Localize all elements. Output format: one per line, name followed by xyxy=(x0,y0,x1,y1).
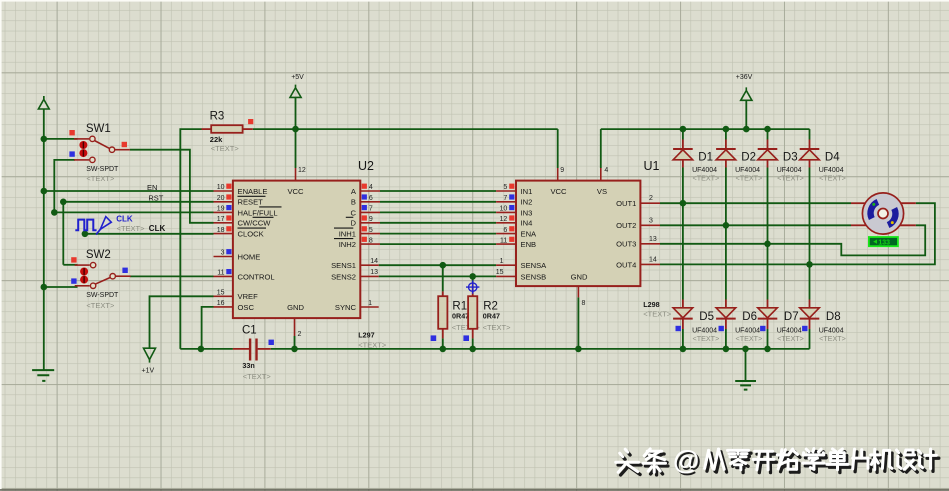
svg-text:8: 8 xyxy=(582,300,586,307)
wire OUT3 to motor right xyxy=(660,225,925,255)
resistor R2 xyxy=(472,282,474,296)
node OSC-GND xyxy=(198,346,205,353)
svg-text:EN: EN xyxy=(147,183,157,192)
svg-text:20: 20 xyxy=(217,195,225,202)
pin 9 U2 stub xyxy=(360,222,380,224)
node OUT1-D1 xyxy=(680,200,687,207)
svg-text:GND: GND xyxy=(287,303,304,312)
pin square U2-3 xyxy=(226,249,231,254)
svg-text:SENSB: SENSB xyxy=(521,272,547,281)
wire GND2 stem xyxy=(745,349,747,381)
pin square U2-10 xyxy=(226,184,231,189)
svg-text:+36V: +36V xyxy=(736,74,753,81)
wire OUT4 to motor right xyxy=(660,203,935,264)
wire SW1 top throw to rail xyxy=(44,138,78,140)
svg-text:13: 13 xyxy=(370,269,378,276)
svg-text:D2: D2 xyxy=(741,151,756,163)
node R1 top xyxy=(440,262,447,269)
pin 15 U2 stub xyxy=(214,295,233,297)
node U1GND xyxy=(575,346,582,353)
svg-text:D1: D1 xyxy=(698,151,713,163)
svg-text:ENABLE: ENABLE xyxy=(238,187,268,196)
svg-text:<TEXT>: <TEXT> xyxy=(777,173,804,182)
wire SW2 top throw xyxy=(63,264,77,266)
svg-text:0R47: 0R47 xyxy=(483,312,500,321)
power +5V symbol xyxy=(290,85,301,98)
svg-text:16: 16 xyxy=(217,300,225,307)
wire diode column D1 to OUT1 xyxy=(682,168,684,204)
wire U2 GND drop xyxy=(294,336,296,349)
svg-text:SENSA: SENSA xyxy=(521,261,548,270)
pin 4 U2 stub xyxy=(360,190,380,192)
wire U1 VCC riser xyxy=(557,129,559,168)
diode D7 xyxy=(767,300,769,308)
svg-text:IN3: IN3 xyxy=(521,208,533,217)
svg-text:1: 1 xyxy=(500,258,504,265)
origin marker xyxy=(466,280,479,293)
power +36V symbol xyxy=(741,87,752,100)
svg-text:D3: D3 xyxy=(783,151,798,163)
svg-text:U2: U2 xyxy=(358,159,374,173)
wire bottom GND net left of C1 xyxy=(180,348,233,350)
diode D3 xyxy=(767,140,769,150)
svg-text:SYNC: SYNC xyxy=(335,303,357,312)
svg-text:SW2: SW2 xyxy=(86,249,111,261)
svg-text:D4: D4 xyxy=(825,151,840,163)
wire diode column D5 down xyxy=(682,203,684,299)
svg-text:11: 11 xyxy=(217,270,224,277)
node OUT2-D2 xyxy=(723,222,730,229)
wire +5V rail xyxy=(253,128,558,130)
selection square D7 xyxy=(760,326,765,331)
pin 5 U2 stub xyxy=(360,233,380,235)
pin 10 U1 stub xyxy=(496,211,516,213)
node bus D1 xyxy=(680,126,687,133)
svg-text:D6: D6 xyxy=(742,311,757,323)
wire diode column D6 down xyxy=(725,225,727,299)
wire OUT1 to motor xyxy=(660,202,851,204)
node OUT3-D3 xyxy=(764,241,771,248)
svg-text:VCC: VCC xyxy=(550,187,567,196)
svg-text:<TEXT>: <TEXT> xyxy=(358,341,387,350)
wire U1 VS riser xyxy=(600,129,602,168)
power +1V symbol (down) xyxy=(144,348,156,362)
wire CLK net to CLOCK pin xyxy=(85,233,214,235)
overline INH1 xyxy=(334,227,353,229)
node OUT4-D4 xyxy=(806,261,813,268)
pin 1 U1 stub xyxy=(496,264,516,266)
svg-text:<TEXT>: <TEXT> xyxy=(736,334,763,343)
svg-text:19: 19 xyxy=(217,206,225,213)
node GND net D7 xyxy=(764,346,771,353)
selection square SW1 b xyxy=(122,142,127,147)
svg-text:VS: VS xyxy=(597,187,607,196)
node rail-SW2 xyxy=(41,284,48,291)
selection square SW1 c xyxy=(69,151,74,156)
svg-text:VCC: VCC xyxy=(287,187,304,196)
svg-text:9: 9 xyxy=(560,167,564,174)
svg-text:5: 5 xyxy=(369,227,373,234)
wire diode column D8 down xyxy=(809,264,811,299)
svg-text:+1V: +1V xyxy=(142,368,155,375)
diode D5 xyxy=(682,300,684,308)
pin square U1-7 xyxy=(509,194,514,199)
svg-text:<TEXT>: <TEXT> xyxy=(243,372,272,381)
overline D xyxy=(346,216,354,218)
pin 11 U1 stub xyxy=(496,243,516,245)
svg-text:12: 12 xyxy=(298,167,306,174)
wire VREF to +1V xyxy=(150,296,214,348)
wire +5V stem xyxy=(295,97,297,129)
svg-text:CLK: CLK xyxy=(149,224,166,233)
svg-text:CONTROL: CONTROL xyxy=(238,272,275,281)
svg-text:18: 18 xyxy=(217,227,225,234)
pin 16 U2 stub xyxy=(214,306,233,308)
wire R2 top drop xyxy=(472,276,474,282)
switch SW2 xyxy=(75,264,90,266)
pin 2 U2 GND stub xyxy=(294,318,296,336)
pin 13 U1 stub xyxy=(640,243,660,245)
svg-text:7: 7 xyxy=(369,206,373,213)
svg-text:15: 15 xyxy=(496,269,504,276)
resistor R3 xyxy=(202,128,212,130)
wire diode column D3 to OUT3 xyxy=(767,168,769,244)
pin 7 U2 stub xyxy=(360,211,380,213)
selection square D6 xyxy=(719,326,724,331)
wire SW1 pole to CW/CCW xyxy=(130,150,214,223)
wire diode column D7 to GND net xyxy=(767,329,769,349)
pin square U2-5 xyxy=(362,226,367,231)
selection square SW2 b xyxy=(122,268,127,273)
svg-text:2: 2 xyxy=(298,331,302,338)
svg-text:OUT2: OUT2 xyxy=(616,221,636,230)
pin square U2-7 xyxy=(362,205,367,210)
svg-text:R1: R1 xyxy=(452,300,467,312)
svg-text:6: 6 xyxy=(503,227,507,234)
wire diode column D5 to GND net xyxy=(682,329,684,349)
node RST-SW2 xyxy=(60,199,67,206)
node bus D3 xyxy=(764,126,771,133)
svg-text:<TEXT>: <TEXT> xyxy=(117,224,146,233)
node HALF/FULL-SW1 xyxy=(51,209,58,216)
pin square U2-8 xyxy=(362,237,367,242)
svg-text:L297: L297 xyxy=(358,331,374,340)
svg-text:5: 5 xyxy=(503,184,507,191)
selection square SW2 a xyxy=(71,257,76,262)
wire R3 left to vertical bus xyxy=(180,129,201,349)
svg-text:SW1: SW1 xyxy=(86,123,111,135)
svg-text:13: 13 xyxy=(649,236,657,243)
wire SENS1 net xyxy=(379,264,496,266)
wire bottom GND net right of C1 xyxy=(271,348,810,350)
svg-text:INH2: INH2 xyxy=(339,240,356,249)
svg-text:ENB: ENB xyxy=(521,240,537,249)
pin 12 U1 stub xyxy=(496,222,516,224)
pin 18 U2 stub xyxy=(214,233,233,235)
pin 10 U2 stub xyxy=(214,190,233,192)
wire RST net vertical+horizontal xyxy=(63,202,213,265)
svg-text:12: 12 xyxy=(500,216,508,223)
pin square U2-20 xyxy=(226,194,231,199)
pin 9 U1 VCC stub xyxy=(557,168,559,181)
svg-text:CLOCK: CLOCK xyxy=(238,230,264,239)
node rail-EN xyxy=(41,188,48,195)
svg-text:<TEXT>: <TEXT> xyxy=(736,173,763,182)
svg-text:B: B xyxy=(351,198,356,207)
svg-text:@: @ xyxy=(673,445,699,475)
watermark text xyxy=(616,445,939,477)
pin 8 U1 GND stub xyxy=(577,286,579,297)
pin 13 U2 stub xyxy=(360,275,378,277)
node U2GND xyxy=(291,346,298,353)
wire U2 VCC riser xyxy=(295,129,297,168)
motor M1 xyxy=(851,202,867,204)
pin 5 U1 stub xyxy=(496,190,516,192)
svg-text:14: 14 xyxy=(370,258,378,265)
svg-text:D: D xyxy=(351,219,357,228)
svg-text:3: 3 xyxy=(221,250,225,257)
svg-text:<TEXT>: <TEXT> xyxy=(211,144,240,153)
svg-text:8: 8 xyxy=(369,237,373,244)
pin square U2-9 xyxy=(362,215,367,220)
wire R1 bottom drop xyxy=(442,338,444,349)
svg-text:7: 7 xyxy=(503,195,507,202)
diode D2 xyxy=(725,140,727,150)
svg-text:0R47: 0R47 xyxy=(452,312,469,321)
wire U2-U1 bus C xyxy=(380,211,496,213)
pin square U2-6 xyxy=(362,194,367,199)
pin square U1-6 xyxy=(509,226,514,231)
svg-text:GND: GND xyxy=(571,272,588,281)
selection square R1 xyxy=(431,335,437,341)
selection square R2 xyxy=(463,335,469,341)
selection square D8 xyxy=(802,326,807,331)
svg-text:<TEXT>: <TEXT> xyxy=(86,301,115,310)
wire diode column D4 top xyxy=(809,129,811,139)
svg-text:17: 17 xyxy=(217,216,225,223)
selection square SW2 c xyxy=(71,278,76,283)
node GND net D5 xyxy=(680,346,687,353)
overline CLOCK xyxy=(238,227,267,229)
overline RESET xyxy=(238,195,266,197)
pin 3 U2 stub xyxy=(214,256,233,258)
svg-text:HOME: HOME xyxy=(238,252,261,261)
svg-text:D5: D5 xyxy=(699,311,714,323)
wire diode column D6 to GND net xyxy=(725,329,727,349)
selection square R3 xyxy=(248,119,253,124)
svg-text:10: 10 xyxy=(217,184,225,191)
pin 6 U2 stub xyxy=(360,201,380,203)
svg-text:ENA: ENA xyxy=(521,230,538,239)
svg-text:OUT1: OUT1 xyxy=(616,199,636,208)
svg-text:3: 3 xyxy=(649,217,653,224)
svg-text:OUT4: OUT4 xyxy=(616,260,636,269)
wire diode column D1 top xyxy=(682,129,684,139)
op-amp U1 body xyxy=(516,181,640,287)
selection square D5 xyxy=(676,326,681,331)
pin 4 U1 VS stub xyxy=(600,168,602,181)
pin 3 U1 stub xyxy=(640,224,660,226)
pin 1 U2 SYNC stub xyxy=(360,306,378,308)
pin square U2-19 xyxy=(226,205,231,210)
svg-text:<TEXT>: <TEXT> xyxy=(483,323,512,332)
node bus D2 xyxy=(723,126,730,133)
diode D6 xyxy=(725,300,727,308)
svg-text:C1: C1 xyxy=(242,325,257,337)
wire U2-U1 bus D xyxy=(380,222,496,224)
node R2 bottom xyxy=(469,346,476,353)
wire U2-U1 bus A xyxy=(380,190,496,192)
ground symbol middle xyxy=(735,381,756,390)
wire OUT2 to motor xyxy=(660,224,851,226)
selection square SW1 a xyxy=(69,130,74,135)
pin 14 U2 stub xyxy=(360,264,378,266)
wire diode column D2 top xyxy=(725,129,727,139)
overline CCW xyxy=(253,216,274,218)
svg-text:SENS1: SENS1 xyxy=(331,261,356,270)
wire U2-U1 bus B xyxy=(380,201,496,203)
op-amp U2 body xyxy=(233,181,360,319)
node GND net tap xyxy=(742,346,749,353)
svg-text:<TEXT>: <TEXT> xyxy=(777,334,804,343)
svg-text:D8: D8 xyxy=(826,311,841,323)
diode D4 xyxy=(809,140,811,150)
pin 19 U2 stub xyxy=(214,211,233,213)
wire SW2 bottom throw to rail xyxy=(44,286,78,288)
wire diode column D2 to OUT2 xyxy=(725,168,727,226)
svg-text:11: 11 xyxy=(500,237,507,244)
node R2 top xyxy=(469,273,476,280)
svg-text:RST: RST xyxy=(148,194,163,203)
svg-text:<TEXT>: <TEXT> xyxy=(693,334,720,343)
pin square U2-17 xyxy=(226,215,231,220)
pin square U1-10 xyxy=(509,205,514,210)
svg-text:L298: L298 xyxy=(643,300,659,309)
wire diode column D7 down xyxy=(767,244,769,300)
svg-text:R2: R2 xyxy=(483,300,498,312)
svg-text:9: 9 xyxy=(369,216,373,223)
svg-text:133: 133 xyxy=(878,239,890,246)
pin 20 U2 stub xyxy=(214,201,233,203)
pin 11 U2 stub xyxy=(214,275,233,277)
svg-text:HALF/FULL: HALF/FULL xyxy=(238,208,278,217)
svg-text:D7: D7 xyxy=(784,311,799,323)
svg-text:IN4: IN4 xyxy=(521,219,533,228)
svg-text:<TEXT>: <TEXT> xyxy=(819,334,846,343)
wire U1 GND drop xyxy=(577,297,579,349)
svg-text:2: 2 xyxy=(649,195,653,202)
pin 7 U1 stub xyxy=(496,201,516,203)
svg-text:<TEXT>: <TEXT> xyxy=(819,173,846,182)
svg-text:SENS2: SENS2 xyxy=(331,272,356,281)
wire SW2 pole to CONTROL xyxy=(130,275,214,277)
svg-text:IN2: IN2 xyxy=(521,198,533,207)
svg-text:14: 14 xyxy=(649,256,657,263)
pin square U1-5 xyxy=(509,184,514,189)
pin square U2-18 xyxy=(226,226,231,231)
switch SW1 xyxy=(74,138,89,140)
overline INH2 xyxy=(334,238,353,240)
pin 14 U1 stub xyxy=(640,263,660,265)
wire diode column D8 to GND net xyxy=(809,329,811,349)
svg-text:SW-SPDT: SW-SPDT xyxy=(86,166,119,173)
pin 17 U2 stub xyxy=(214,222,233,224)
wire U2-U1 bus INH2-ENB xyxy=(380,243,496,245)
node +5V xyxy=(292,126,299,133)
pin 12 U2 VCC stub xyxy=(295,168,297,181)
node rail-SW1 xyxy=(41,136,48,143)
wire R2 bottom drop xyxy=(472,338,474,349)
wire R1 top drop xyxy=(442,265,444,291)
svg-text:R3: R3 xyxy=(210,111,225,123)
wire OSC drop xyxy=(202,307,214,349)
svg-text:C: C xyxy=(351,208,357,217)
wire left GND rail xyxy=(43,109,45,370)
svg-text:6: 6 xyxy=(369,195,373,202)
motor speed display xyxy=(869,237,898,246)
svg-text:OUT3: OUT3 xyxy=(616,240,636,249)
svg-text:15: 15 xyxy=(217,290,225,297)
svg-text:RESET: RESET xyxy=(238,198,264,207)
pin square U1-11 xyxy=(509,237,514,242)
node R1 bottom xyxy=(440,346,447,353)
svg-text:INH1: INH1 xyxy=(339,230,356,239)
capacitor C1 xyxy=(233,348,249,350)
wire +36V bus xyxy=(601,128,810,130)
svg-text:SW-SPDT: SW-SPDT xyxy=(86,292,119,299)
wire EN net rail to U2 ENABLE xyxy=(44,190,214,192)
svg-text:22k: 22k xyxy=(210,135,223,144)
wire U2-U1 bus INH1-ENA xyxy=(380,233,496,235)
pin square U2-4 xyxy=(362,184,367,189)
diode D1 xyxy=(682,140,684,150)
svg-text:<TEXT>: <TEXT> xyxy=(86,174,115,183)
wire SW1 bottom throw to HALF/FULL xyxy=(54,160,213,213)
pin 15 U1 stub xyxy=(496,275,516,277)
wire diode column D4 to OUT4 xyxy=(809,168,811,265)
clock generator symbol xyxy=(75,220,96,231)
power symbol top-left xyxy=(38,96,49,109)
diode D8 xyxy=(809,300,811,308)
node GND net D6 xyxy=(723,346,730,353)
svg-text:+5V: +5V xyxy=(291,74,304,81)
svg-text:OSC: OSC xyxy=(238,303,255,312)
svg-text:10: 10 xyxy=(500,206,508,213)
pin 6 U1 stub xyxy=(496,233,516,235)
ground symbol left xyxy=(32,370,54,381)
svg-text:4: 4 xyxy=(604,167,608,174)
pin 2 U1 stub xyxy=(640,202,660,204)
svg-text:IN1: IN1 xyxy=(521,187,533,196)
svg-text:4: 4 xyxy=(369,184,373,191)
resistor R1 xyxy=(442,291,444,296)
pin square U2-11 xyxy=(226,269,231,274)
svg-text:<TEXT>: <TEXT> xyxy=(693,173,720,182)
svg-text:33n: 33n xyxy=(242,361,254,370)
node bus +36V xyxy=(743,126,750,133)
svg-text:CW/CCW: CW/CCW xyxy=(238,219,272,228)
pin square U1-12 xyxy=(509,215,514,220)
node CLK source xyxy=(82,231,89,238)
svg-text:CLK: CLK xyxy=(116,215,133,224)
overline FULL xyxy=(259,206,281,208)
svg-text:<TEXT>: <TEXT> xyxy=(643,309,672,318)
svg-text:U1: U1 xyxy=(644,159,660,173)
wire +36V stem xyxy=(745,100,747,129)
svg-text:1: 1 xyxy=(368,300,372,307)
wire diode column D3 top xyxy=(767,129,769,139)
pin 8 U2 stub xyxy=(360,243,380,245)
